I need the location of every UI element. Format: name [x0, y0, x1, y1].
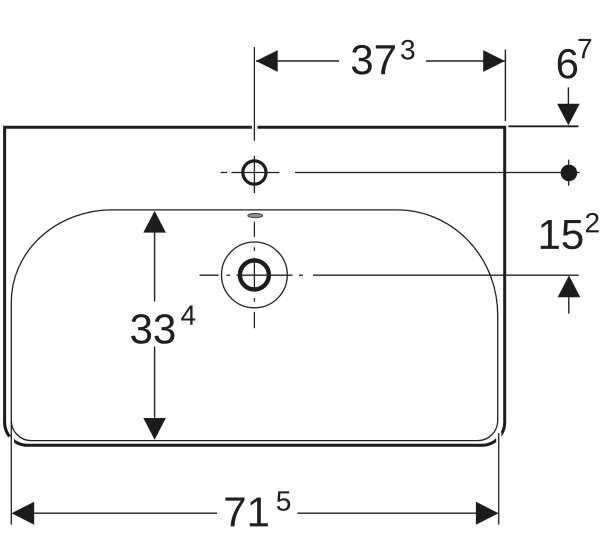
dimension 33.4 down arrow [143, 418, 166, 440]
dimension 71.5 line [34, 512, 217, 514]
label 37.3 [352, 45, 372, 75]
dimension 37.3 right extension line [504, 50, 506, 122]
label 71.5 [225, 498, 244, 527]
dimension 6.7 arrow tail [567, 87, 569, 104]
drain hole outer circle [222, 242, 288, 308]
dimension 37.3 right arrow [483, 50, 505, 72]
drain hole inner circle [240, 260, 269, 289]
basin inner rim outline [11, 210, 497, 441]
label 33.4 [131, 314, 151, 344]
overflow slot [248, 214, 263, 218]
dot tick above [568, 160, 570, 165]
dimension 6.7 down arrow [557, 104, 580, 125]
drain centre line horizontal [200, 274, 219, 276]
top edge extension line to the right [508, 125, 578, 127]
gap in bottom-right corner at extension line [496, 433, 501, 446]
dimension 71.5 left arrow [12, 502, 35, 525]
dot tick below [568, 181, 570, 186]
tap hole centre line horizontal [221, 172, 228, 174]
tap hole centre line vertical (also 37.3 left extension line) [253, 47, 255, 141]
dimension 71.5 right arrow [476, 502, 499, 525]
gap in bottom-left corner at extension line [9, 437, 14, 448]
tap hole [243, 161, 266, 184]
label 6.7 [558, 49, 577, 79]
dimension 15.2 reference dot [561, 165, 578, 182]
washbasin outer ceramic outline [5, 127, 505, 445]
dimension 71.5 right extension line [498, 433, 500, 525]
gap in top edge at tap centre line [252, 125, 258, 131]
dimension 15.2 arrow tail [568, 297, 570, 313]
dimension 33.4 up arrow [143, 211, 166, 233]
drain centre line vertical [253, 222, 255, 237]
dimension 15.2 up arrow [558, 276, 581, 298]
dimension 37.3 left arrow [256, 50, 278, 72]
dimension 37.3 line [256, 60, 339, 62]
dimension 71.5 left extension line [10, 421, 12, 525]
label 15.2 [541, 220, 559, 249]
dimension 33.4 line [154, 233, 156, 302]
